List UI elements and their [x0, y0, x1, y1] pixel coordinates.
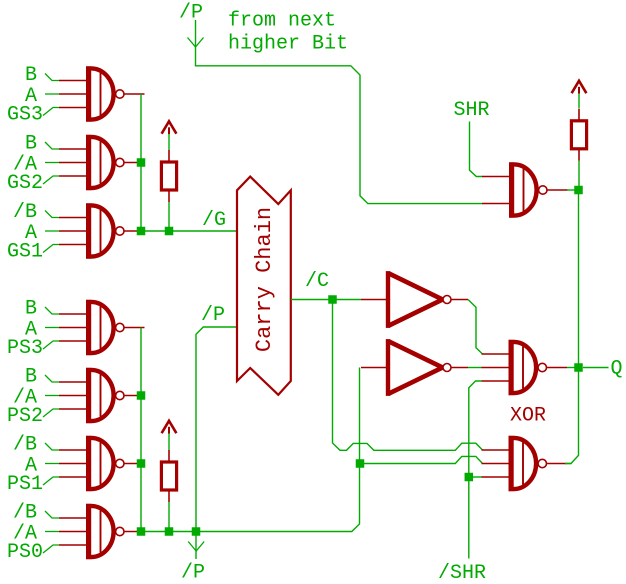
- wire /B to G6 pin1: [45, 443, 59, 450]
- wire GS3 to G1 pin3: [43, 108, 59, 116]
- svg-text:Carry Chain: Carry Chain: [252, 207, 277, 352]
- svg-text:Q: Q: [611, 358, 623, 381]
- junction /P off-page stub: [192, 527, 201, 536]
- junction G3 output: [137, 227, 146, 236]
- wire /P vertical (G4-G7 wired-AND): [140, 328, 142, 532]
- wire output rail (wired-AND Q rail): [567, 190, 579, 464]
- svg-text:B: B: [25, 298, 37, 321]
- wire vcc to resistor R3: [578, 93, 580, 108]
- off-page arrow /P (top): [188, 38, 204, 48]
- vcc arrow (lower-left pull-up): [162, 421, 177, 434]
- off-page arrow /P (bottom): [188, 542, 204, 552]
- wire /A to G5 pin2: [45, 395, 59, 397]
- wire vcc to resistor R1: [168, 134, 170, 150]
- wire /P riser to carry chain: [196, 327, 237, 532]
- svg-text:GS2: GS2: [7, 172, 43, 195]
- junction /C at inverter input: [328, 295, 337, 304]
- svg-text:XOR: XOR: [510, 405, 546, 428]
- wire U9 output down to XOR1 pin1: [468, 300, 483, 355]
- vcc arrow (right pull-up): [572, 81, 587, 94]
- nand G5 inputs B /A PS2: [59, 368, 145, 424]
- nand G6 inputs /B A PS1: [59, 436, 145, 492]
- junction G2 output: [137, 158, 146, 167]
- svg-text:SHR: SHR: [454, 99, 490, 122]
- wire /G horizontal to carry chain: [141, 230, 237, 232]
- wire PS0 to G7 pin3: [43, 545, 59, 553]
- svg-text:B: B: [25, 64, 37, 87]
- wire /SHR branch to XOR2 pin3: [469, 476, 482, 478]
- wire /A to G7 pin2: [45, 531, 59, 533]
- svg-text:PS3: PS3: [7, 337, 43, 360]
- svg-text:PS2: PS2: [7, 405, 43, 428]
- junction resistor R1 on /G: [165, 227, 174, 236]
- svg-text:/C: /C: [305, 270, 329, 293]
- svg-text:/B: /B: [13, 201, 37, 224]
- carry chain block: [237, 177, 291, 395]
- inverter U9: [361, 271, 468, 328]
- wire vcc to resistor R2: [168, 433, 170, 450]
- wire B to G5 pin1: [45, 375, 59, 382]
- junction G6 output: [137, 459, 146, 468]
- svg-text:/B: /B: [13, 434, 37, 457]
- wire /C down and across to XOR2 pin1 (with hops): [333, 300, 483, 451]
- wire SHR to U8 pin 1: [470, 122, 483, 177]
- junction /P branch: [356, 459, 365, 468]
- nand G4 inputs B A PS3: [59, 300, 145, 356]
- wire /P branch to XOR2 pin2 (hop over /SHR): [360, 456, 483, 463]
- svg-text:/P: /P: [201, 304, 225, 327]
- wire /B to G3 pin1: [45, 211, 59, 218]
- svg-text:higher Bit: higher Bit: [228, 33, 348, 56]
- wire /P bottom horizontal to inverter U10 input riser: [141, 368, 360, 532]
- nand XOR1 (output Q): [482, 340, 568, 396]
- svg-text:PS1: PS1: [7, 473, 43, 496]
- svg-text:B: B: [25, 366, 37, 389]
- nand XOR2: [482, 436, 568, 492]
- wire XOR1 output to rail: [567, 367, 579, 369]
- wire A to G4 pin2: [45, 327, 59, 329]
- junction resistor R2 on /P: [165, 527, 174, 536]
- wire XOR2 output to rail bevel: [565, 463, 572, 465]
- svg-text:/B: /B: [13, 502, 37, 525]
- wire A to G3 pin2: [45, 230, 59, 232]
- wire PS3 to G4 pin3: [43, 341, 59, 349]
- wire B to G4 pin1: [45, 307, 59, 314]
- wire A to G1 pin2: [45, 93, 59, 95]
- wire GS1 to G3 pin3: [43, 245, 59, 253]
- svg-text:from next: from next: [228, 10, 336, 33]
- wire GS2 to G2 pin3: [43, 176, 59, 184]
- wire /P from next higher bit to gate U8 pin 2: [196, 20, 483, 204]
- wire /SHR riser from XOR1 pin3 down: [469, 381, 482, 559]
- junction G5 output: [137, 391, 146, 400]
- wire U8 output to rail: [567, 189, 579, 191]
- wire /G vertical (G1-G3 wired-AND): [140, 94, 142, 231]
- svg-text:/SHR: /SHR: [438, 562, 486, 584]
- junction rail at U8 output: [574, 186, 583, 195]
- wire /P off-page stub down: [195, 532, 197, 560]
- nand U8 (SHR gate): [482, 162, 568, 218]
- wire resistor R3 to output rail: [578, 161, 580, 190]
- svg-text:/G: /G: [202, 209, 226, 232]
- wire /C output of carry chain to inverter U9: [291, 299, 361, 301]
- nand G1 inputs B A GS3: [59, 66, 145, 122]
- resistor R3: [571, 109, 586, 161]
- wire PS1 to G6 pin3: [43, 477, 59, 485]
- nand G2 inputs B /A GS2: [59, 135, 145, 191]
- inverter U10: [361, 339, 468, 396]
- svg-text:/P: /P: [179, 2, 203, 25]
- svg-text:GS1: GS1: [7, 241, 43, 264]
- resistor R2: [161, 450, 176, 502]
- wire /B to G7 pin1: [45, 511, 59, 518]
- junction Q: [574, 363, 583, 372]
- wire B to G2 pin1: [45, 142, 59, 149]
- wire A to G6 pin2: [45, 463, 59, 465]
- svg-text:GS3: GS3: [7, 104, 43, 127]
- resistor R1: [161, 150, 176, 202]
- wire U10 output to XOR1 pin2: [468, 367, 482, 369]
- svg-text:/P: /P: [181, 562, 205, 584]
- junction G7 output: [137, 527, 146, 536]
- nand G3 inputs /B A GS1: [59, 203, 145, 259]
- wire Q out: [583, 367, 609, 369]
- junction /SHR: [465, 473, 474, 482]
- wire PS2 to G5 pin3: [43, 409, 59, 417]
- vcc arrow (upper-left pull-up): [162, 121, 177, 134]
- svg-text:PS0: PS0: [7, 541, 43, 564]
- wire /A to G2 pin2: [45, 162, 59, 164]
- svg-text:B: B: [25, 133, 37, 156]
- wire resistor R1 to /G net: [168, 202, 170, 231]
- wire resistor R2 to /P net: [168, 502, 170, 532]
- wire B to G1 pin1: [45, 74, 59, 81]
- nand G7 inputs /B /A PS0: [59, 504, 145, 560]
